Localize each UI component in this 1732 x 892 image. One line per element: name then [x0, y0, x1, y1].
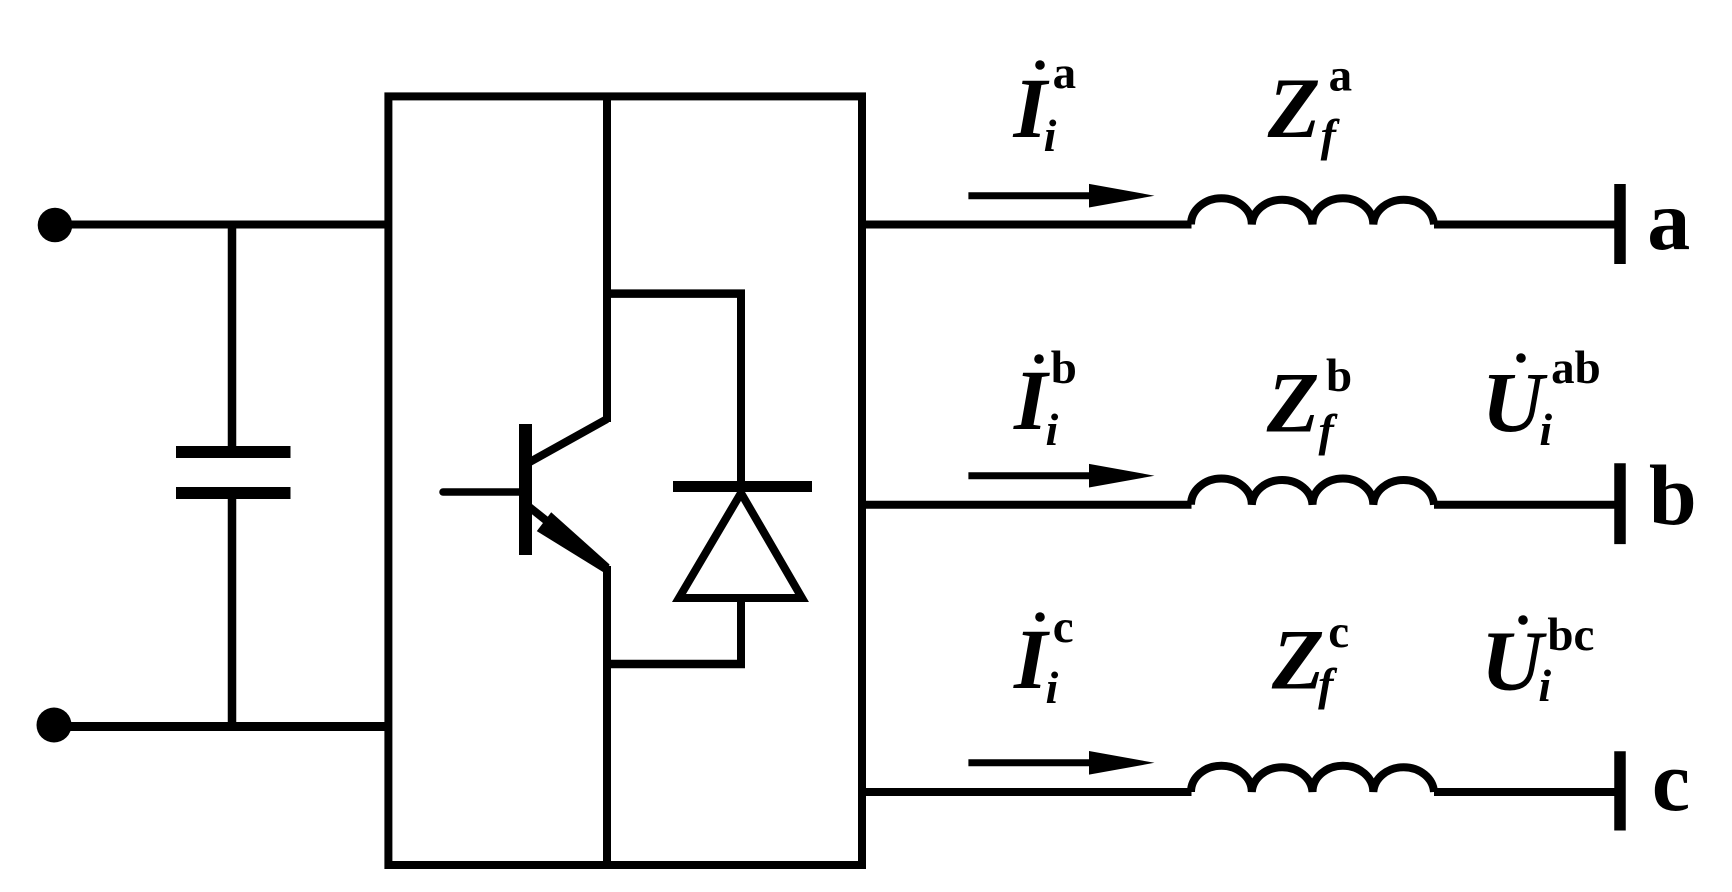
inductor Zf-c: [1191, 766, 1434, 792]
current arrow phase b: [968, 464, 1154, 488]
svg-text:b: b: [1649, 447, 1697, 543]
inductor Zf-a: [1191, 198, 1434, 224]
diode D cathode bar: [673, 481, 812, 492]
svg-text:i: i: [1539, 404, 1552, 455]
svg-text:c: c: [1053, 601, 1074, 653]
svg-text:I: I: [1013, 352, 1050, 448]
terminal a: [1614, 184, 1626, 264]
label impedance Zf-c: [1271, 606, 1349, 710]
current arrow phase c: [968, 751, 1154, 775]
transistor Q emitter arrow: [537, 512, 610, 572]
wire bottom DC input: [54, 722, 392, 731]
transistor Q bar: [519, 424, 532, 555]
wire phase a output: [862, 221, 1192, 229]
DC terminal dot bottom: [37, 708, 72, 743]
wire phase b output: [862, 501, 1192, 509]
wire phase a to terminal: [1434, 221, 1615, 229]
transistor Q collector lead: [528, 419, 607, 463]
svg-text:i: i: [1538, 660, 1551, 711]
label impedance Zf-a: [1267, 50, 1352, 162]
svg-text:b: b: [1051, 342, 1077, 394]
diode D anode lead: [737, 598, 745, 664]
label voltage Ui-bc: [1481, 609, 1594, 711]
label current Ii-b: [1013, 342, 1077, 455]
svg-text:Z: Z: [1271, 612, 1325, 708]
wire DC-link divider lower: [603, 566, 611, 865]
current arrow phase a: [968, 184, 1154, 208]
svg-text:U: U: [1482, 354, 1548, 450]
terminal b: [1614, 463, 1626, 544]
wire diode bottom connector: [603, 660, 745, 669]
capacitor C top lead wire: [228, 225, 237, 447]
svg-text:b: b: [1326, 350, 1352, 402]
label impedance Zf-b: [1266, 350, 1352, 456]
svg-text:i: i: [1046, 662, 1059, 713]
transistor Q emitter lead: [528, 506, 607, 569]
wire phase c output: [862, 788, 1192, 796]
wire phase c to terminal: [1434, 788, 1615, 796]
capacitor C bottom lead wire: [228, 499, 237, 727]
svg-text:c: c: [1652, 733, 1690, 829]
svg-text:i: i: [1046, 404, 1059, 455]
svg-text:a: a: [1329, 50, 1353, 102]
svg-text:I: I: [1013, 611, 1050, 707]
wire diode top connector: [603, 289, 745, 298]
label current Ii-c: [1013, 601, 1074, 713]
svg-text:a: a: [1647, 172, 1690, 268]
diode D triangle: [679, 493, 802, 598]
svg-text:Z: Z: [1267, 60, 1321, 156]
label voltage Ui-ab: [1482, 342, 1601, 455]
inductor Zf-b: [1191, 479, 1434, 505]
svg-text:i: i: [1044, 110, 1057, 161]
capacitor C: [176, 452, 291, 493]
svg-text:U: U: [1481, 613, 1547, 709]
svg-text:Z: Z: [1266, 355, 1320, 451]
label current Ii-a: [1013, 47, 1077, 161]
terminal c: [1614, 751, 1626, 830]
svg-text:bc: bc: [1547, 609, 1594, 661]
DC terminal dot top: [38, 208, 73, 243]
svg-text:c: c: [1328, 606, 1349, 658]
wire phase b to terminal: [1434, 501, 1615, 509]
transistor Q base lead: [443, 488, 525, 496]
wire top DC input: [55, 221, 392, 229]
wire DC-link divider upper: [603, 96, 611, 422]
diode D cathode lead: [737, 294, 745, 483]
svg-text:ab: ab: [1551, 342, 1601, 394]
converter box: [388, 96, 862, 865]
svg-text:a: a: [1053, 47, 1077, 99]
